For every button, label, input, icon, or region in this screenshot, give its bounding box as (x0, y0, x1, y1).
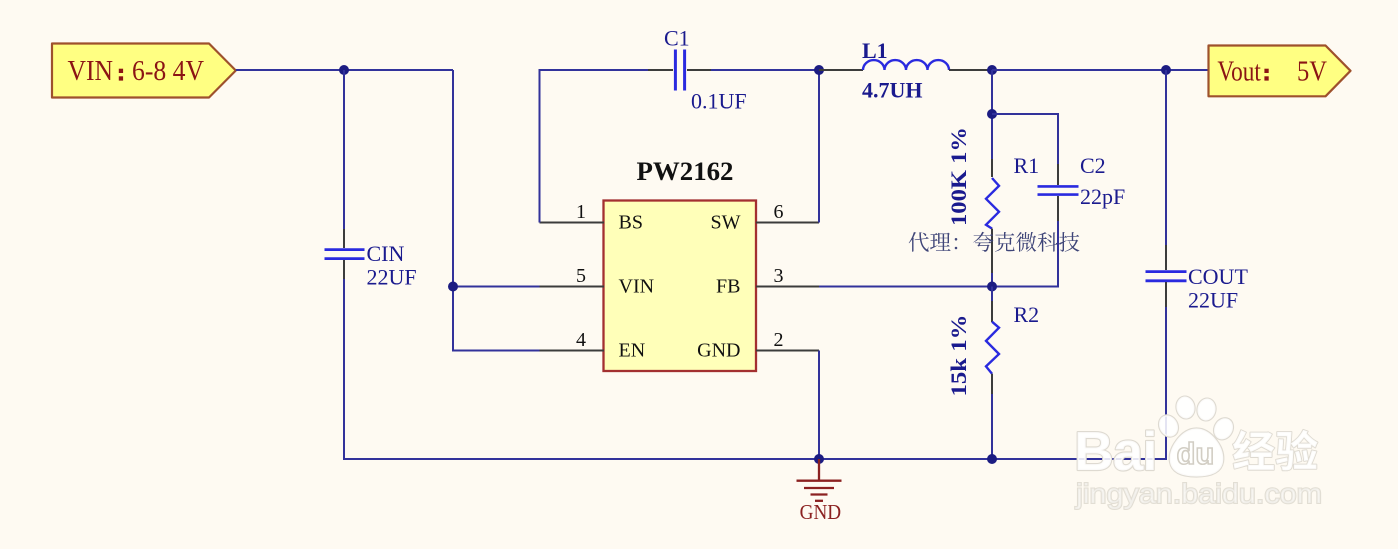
wire VIN top rail (236, 69, 453, 71)
svg-text:du: du (1177, 436, 1215, 471)
svg-text:GND: GND (800, 500, 842, 524)
junction node R2 bottom (987, 454, 997, 464)
capacitor CIN (325, 70, 365, 460)
svg-text:CIN: CIN (367, 241, 405, 266)
capacitor C1 (648, 50, 711, 91)
junction node R1 top (987, 109, 997, 119)
resistor R2 (986, 287, 999, 461)
junction node FB (987, 282, 997, 292)
watermark baidu jingyan (1074, 395, 1322, 509)
svg-text:R1: R1 (1014, 153, 1040, 178)
junction node L1 out (987, 65, 997, 75)
junction node GND (814, 454, 824, 464)
capacitor C2 branch (992, 114, 1079, 287)
pin stub VIN (540, 286, 605, 288)
svg-text:4.7UH: 4.7UH (862, 78, 923, 103)
svg-text:3: 3 (774, 265, 784, 287)
pin stub GND (756, 350, 819, 352)
pin stub EN (540, 350, 605, 352)
wire vertical to VIN/EN pins (453, 70, 540, 351)
wire bottom rail (344, 458, 1166, 460)
svg-text:0.1UF: 0.1UF (691, 89, 747, 114)
svg-text:GND: GND (697, 340, 740, 362)
svg-text:6: 6 (774, 201, 784, 223)
svg-text:6-8 4V: 6-8 4V (132, 55, 204, 87)
svg-text:EN: EN (619, 340, 646, 362)
junction node CIN top (339, 65, 349, 75)
paw pad (1170, 429, 1224, 477)
svg-text:5: 5 (576, 265, 586, 287)
wire SW riser (818, 70, 820, 223)
svg-text:22pF: 22pF (1080, 184, 1125, 209)
wire C1 to SW junction (711, 69, 819, 71)
svg-text:2: 2 (774, 329, 784, 351)
capacitor COUT (1146, 70, 1187, 460)
svg-text:jingyan.baidu.com: jingyan.baidu.com (1075, 478, 1322, 509)
svg-text:22UF: 22UF (1188, 288, 1238, 313)
svg-text:C1: C1 (664, 26, 690, 51)
paw toe 4 (1210, 415, 1236, 443)
pin stub SW (756, 222, 819, 224)
pin stub BS (540, 222, 605, 224)
junction node VIN pin (448, 282, 458, 292)
paw toe 2 (1175, 395, 1197, 420)
svg-text:100K 1%: 100K 1% (946, 127, 971, 226)
svg-text:15k 1%: 15k 1% (946, 315, 971, 397)
junction node SW/C1/L1 (814, 65, 824, 75)
svg-text:VIN: VIN (68, 55, 114, 87)
svg-text:FB: FB (716, 276, 740, 298)
svg-text:L1: L1 (862, 38, 888, 63)
paw toe 3 (1196, 397, 1218, 422)
svg-text:R2: R2 (1014, 302, 1040, 327)
wire VIN pin branch (453, 286, 540, 288)
svg-text:Vout: Vout (1217, 56, 1261, 88)
port flag VIN (52, 44, 236, 98)
svg-text:VIN: VIN (619, 276, 655, 298)
svg-text:1: 1 (576, 201, 586, 223)
svg-text:4: 4 (576, 329, 586, 351)
svg-text:5V: 5V (1297, 56, 1327, 88)
svg-text:Bai: Bai (1074, 420, 1157, 482)
watermark 经验 (1233, 430, 1318, 471)
svg-text:22UF: 22UF (367, 265, 417, 290)
junction node COUT top (1161, 65, 1171, 75)
paw toe 1 (1155, 412, 1181, 440)
IC U1 PW2162 body (604, 201, 757, 372)
wire GND branch (818, 351, 820, 460)
svg-text:C2: C2 (1080, 153, 1106, 178)
note text 代理：夸克微科技 (909, 232, 1080, 252)
wire FB net (819, 286, 992, 288)
svg-text:PW2162: PW2162 (637, 157, 734, 186)
pin stub FB (756, 286, 819, 288)
ground symbol (797, 459, 842, 501)
inductor L1 (819, 60, 992, 70)
resistor R1 (986, 70, 999, 287)
svg-text:COUT: COUT (1188, 264, 1248, 289)
svg-text:BS: BS (619, 212, 643, 234)
wire output rail (992, 69, 1209, 71)
wire BS loop (540, 70, 649, 223)
port flag Vout (1209, 46, 1351, 97)
svg-text:SW: SW (711, 212, 741, 234)
